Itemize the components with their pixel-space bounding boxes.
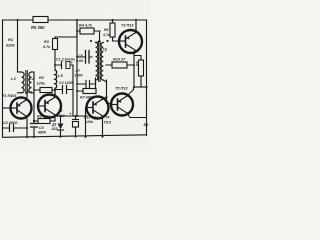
resistor R7 680 <box>76 89 96 100</box>
wire T4 base down <box>84 108 86 138</box>
wire R9 bottom link <box>133 86 148 88</box>
transistor T5 П13 <box>111 87 133 116</box>
capacitor C5 label <box>38 126 46 135</box>
wire right rail <box>146 20 148 136</box>
wire bottom rail <box>3 135 147 138</box>
resistor R1 label <box>6 37 16 48</box>
capacitor C8 0,05 <box>76 51 92 64</box>
transformer Tr <box>90 40 109 82</box>
wire Tr secondary bottom <box>103 80 106 82</box>
resistor R9 <box>134 56 144 88</box>
resistor R6 4,7k <box>102 19 119 41</box>
resistor R2 120k <box>33 76 55 93</box>
wire left rail <box>2 20 4 137</box>
wire AGC node vertical <box>33 72 35 121</box>
transistor T1 П401 <box>2 94 32 119</box>
node bottom rail junctions <box>33 135 77 138</box>
wire Tr primary bottom <box>95 80 97 84</box>
diode Д1 <box>51 116 64 137</box>
capacitor C3 <box>31 120 38 137</box>
label battery <box>144 123 149 127</box>
wire AGC link <box>54 115 56 121</box>
resistor R5 <box>31 17 48 31</box>
wire detector node <box>55 115 87 117</box>
resistor R8 6,8k <box>34 115 55 124</box>
capacitor C10 2,0x10в <box>69 111 99 136</box>
wire T2 emitter up <box>54 90 57 98</box>
wire T3 collector down <box>134 50 135 87</box>
label T4 П13 <box>104 116 112 125</box>
transistor T2 П402 <box>38 95 65 119</box>
wire T4 collector to T5 base <box>102 80 111 104</box>
capacitor C9 1000 <box>76 78 96 91</box>
wire T2 collector down <box>54 115 57 117</box>
wire T5 collector to right rail <box>127 113 147 118</box>
transistor T4 П13 <box>86 97 109 119</box>
transformer L3 L4 <box>11 71 35 94</box>
wire T3 emitter to rail <box>135 19 137 33</box>
wire T1 collector up <box>26 92 32 100</box>
node top rail junctions <box>16 19 18 21</box>
capacitor C1 2,0x10в <box>54 58 76 69</box>
wire T4 emitter down <box>101 116 103 138</box>
wire top rail <box>3 19 147 21</box>
wire T1 emitter to ground <box>26 127 28 138</box>
capacitor C7 1000 <box>75 69 83 78</box>
resistor R3 6,7k <box>43 37 58 70</box>
capacitor C2 6800 <box>3 121 28 132</box>
wire middle rail V1 <box>76 19 78 116</box>
wire T1 base to left rail <box>3 107 12 109</box>
transistor T3 П13 <box>119 24 142 54</box>
inductor L5 <box>55 70 63 88</box>
capacitor C4 1000 <box>55 81 73 94</box>
resistor R10 27 <box>106 58 135 69</box>
wire middle rail V2 <box>72 65 74 116</box>
wire L5 to T2 <box>54 88 56 97</box>
wire R4 to transformer <box>96 31 100 43</box>
wire antenna branch <box>17 20 19 72</box>
wire T5 emitter up to R9 node <box>127 87 134 96</box>
wire oscillator branch top <box>55 20 77 38</box>
resistor R4 4,7k <box>76 24 100 35</box>
wire T1 emitter down <box>26 116 27 128</box>
